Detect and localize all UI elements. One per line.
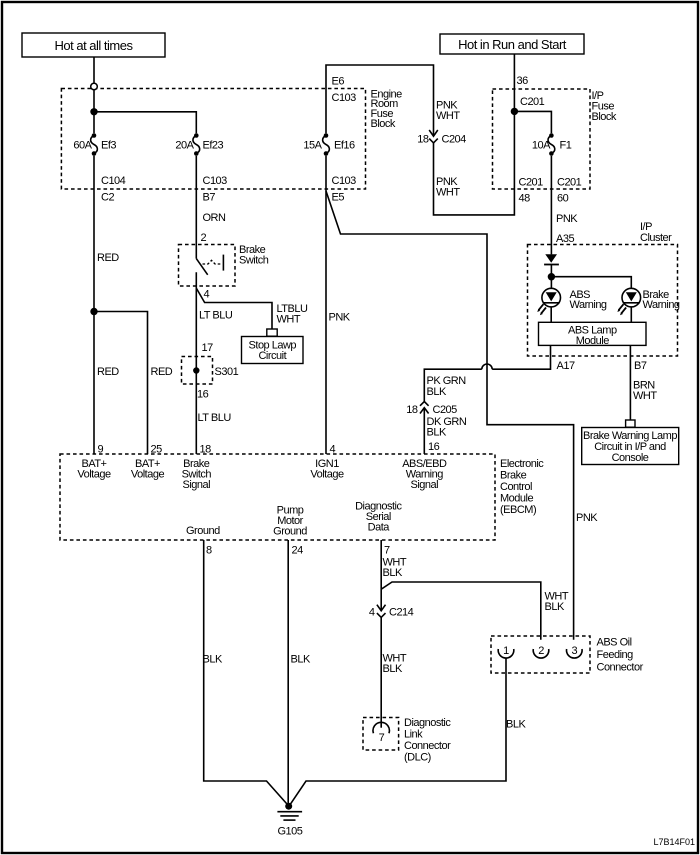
svg-text:B7: B7 <box>634 360 647 372</box>
svg-text:Hot at all times: Hot at all times <box>55 38 134 53</box>
svg-text:4: 4 <box>369 607 375 619</box>
svg-text:2: 2 <box>201 232 207 244</box>
svg-text:18: 18 <box>417 134 429 146</box>
svg-text:18: 18 <box>406 404 418 416</box>
svg-text:C205: C205 <box>433 404 458 416</box>
svg-text:PNK: PNK <box>329 312 351 324</box>
svg-text:4: 4 <box>330 444 336 456</box>
svg-text:Block: Block <box>371 118 396 130</box>
svg-text:25: 25 <box>151 444 163 456</box>
svg-text:Data: Data <box>368 522 391 534</box>
svg-text:C204: C204 <box>442 134 467 146</box>
svg-text:C201: C201 <box>557 177 582 189</box>
svg-text:Signal: Signal <box>411 479 439 491</box>
svg-text:10A: 10A <box>532 140 551 152</box>
svg-text:RED: RED <box>151 366 173 378</box>
svg-text:BLK: BLK <box>383 567 403 579</box>
svg-text:WHT: WHT <box>436 187 460 199</box>
svg-text:Ef16: Ef16 <box>334 140 355 152</box>
svg-text:3: 3 <box>571 645 577 657</box>
svg-text:C103: C103 <box>332 92 357 104</box>
svg-text:Ground: Ground <box>273 525 307 537</box>
svg-text:BLK: BLK <box>545 601 565 613</box>
svg-text:36: 36 <box>517 75 529 87</box>
svg-text:ORN: ORN <box>203 212 227 224</box>
svg-text:60: 60 <box>557 193 569 205</box>
svg-text:BLK: BLK <box>506 719 526 731</box>
svg-text:Cluster: Cluster <box>640 232 672 244</box>
svg-text:2: 2 <box>538 645 544 657</box>
svg-text:C103: C103 <box>203 175 228 187</box>
svg-text:17: 17 <box>202 342 214 354</box>
svg-text:G105: G105 <box>278 826 303 838</box>
svg-text:E5: E5 <box>332 192 345 204</box>
svg-text:8: 8 <box>206 545 212 557</box>
svg-text:C103: C103 <box>332 175 357 187</box>
svg-text:LT BLU: LT BLU <box>198 412 232 424</box>
svg-text:Brake: Brake <box>500 470 527 482</box>
svg-text:Feeding: Feeding <box>597 649 634 661</box>
svg-text:C201: C201 <box>519 177 544 189</box>
svg-text:C201: C201 <box>520 96 545 108</box>
svg-text:Link: Link <box>404 729 423 741</box>
svg-text:15A: 15A <box>303 140 322 152</box>
svg-text:Ef23: Ef23 <box>203 140 224 152</box>
svg-text:BLK: BLK <box>427 427 447 439</box>
svg-text:1: 1 <box>503 645 509 657</box>
svg-text:60A: 60A <box>73 140 92 152</box>
svg-text:Warning: Warning <box>643 299 680 311</box>
svg-text:C214: C214 <box>389 607 414 619</box>
svg-text:B7: B7 <box>203 192 216 204</box>
svg-text:Module: Module <box>500 493 533 505</box>
svg-text:4: 4 <box>204 289 210 301</box>
svg-text:(EBCM): (EBCM) <box>500 504 536 516</box>
svg-text:16: 16 <box>197 389 209 401</box>
svg-text:RED: RED <box>97 252 119 264</box>
svg-text:Console: Console <box>612 452 649 464</box>
svg-text:A35: A35 <box>556 233 574 245</box>
svg-text:Block: Block <box>592 111 617 123</box>
svg-text:Warning: Warning <box>570 299 607 311</box>
svg-text:WHT: WHT <box>436 110 460 122</box>
svg-text:16: 16 <box>428 441 440 453</box>
svg-text:Voltage: Voltage <box>310 469 344 481</box>
svg-text:48: 48 <box>519 193 531 205</box>
svg-text:Circuit: Circuit <box>258 350 286 362</box>
svg-text:(DLC): (DLC) <box>404 752 431 764</box>
svg-text:BLK: BLK <box>203 654 223 666</box>
svg-text:Voltage: Voltage <box>77 469 111 481</box>
svg-text:7: 7 <box>384 545 390 557</box>
svg-text:PNK: PNK <box>556 213 578 225</box>
svg-text:Voltage: Voltage <box>131 469 165 481</box>
svg-text:C2: C2 <box>101 192 114 204</box>
svg-text:Control: Control <box>500 481 532 493</box>
svg-text:Hot in Run and Start: Hot in Run and Start <box>458 37 567 52</box>
svg-text:Connector: Connector <box>404 740 451 752</box>
svg-text:WHT: WHT <box>277 314 301 326</box>
svg-text:S301: S301 <box>215 366 239 378</box>
svg-text:24: 24 <box>292 545 304 557</box>
svg-text:Switch: Switch <box>239 255 269 267</box>
svg-text:PNK: PNK <box>576 512 598 524</box>
svg-text:F1: F1 <box>560 140 572 152</box>
svg-text:Module: Module <box>576 335 609 347</box>
svg-text:Connector: Connector <box>597 662 644 674</box>
svg-text:BLK: BLK <box>291 654 311 666</box>
svg-text:BLK: BLK <box>427 386 447 398</box>
svg-text:BLK: BLK <box>383 663 403 675</box>
svg-text:18: 18 <box>200 444 212 456</box>
svg-text:RED: RED <box>97 366 119 378</box>
svg-text:A17: A17 <box>557 360 575 372</box>
svg-text:Diagnostic: Diagnostic <box>404 717 451 729</box>
svg-text:Ground: Ground <box>186 525 220 537</box>
svg-text:ABS Oil: ABS Oil <box>597 637 632 649</box>
svg-text:C104: C104 <box>101 175 126 187</box>
svg-text:L7B14F01: L7B14F01 <box>653 837 695 847</box>
svg-text:LT BLU: LT BLU <box>199 310 233 322</box>
svg-text:7: 7 <box>379 732 385 744</box>
svg-text:Signal: Signal <box>183 479 211 491</box>
svg-text:Ef3: Ef3 <box>101 140 116 152</box>
svg-text:9: 9 <box>98 444 104 456</box>
svg-text:E6: E6 <box>332 76 345 88</box>
svg-text:WHT: WHT <box>633 390 657 402</box>
svg-text:Electronic: Electronic <box>500 458 544 470</box>
svg-text:20A: 20A <box>175 140 194 152</box>
